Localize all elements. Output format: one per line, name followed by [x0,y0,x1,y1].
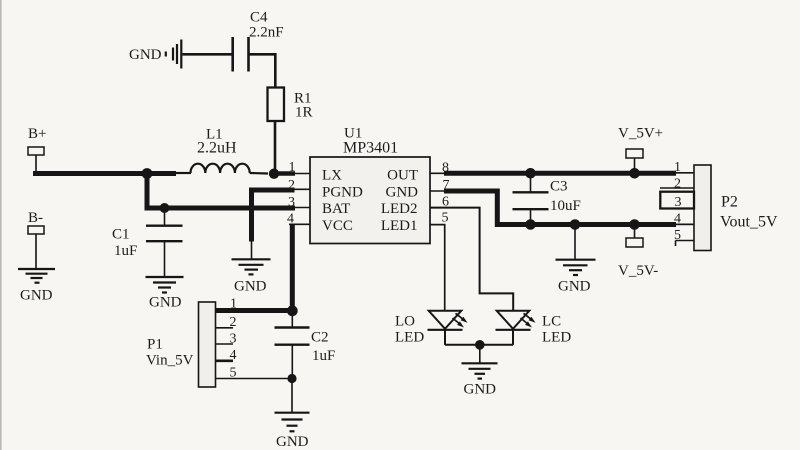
junction VCC/P1 [287,305,298,316]
junction L1/R1/LX [269,169,279,179]
wire GND pin7 to rail [444,191,532,225]
ground rail [556,260,596,275]
P1 pin3 stub [216,343,234,345]
P2 pin2 stub [660,187,694,189]
svg-text:B-: B- [28,210,43,226]
ground top-left (sideways) [166,40,182,69]
connector P2 box [694,165,711,251]
capacitor C4 [233,37,249,72]
capacitor C2 [275,311,310,379]
svg-text:4: 4 [287,212,294,227]
wire PGND [252,190,295,242]
svg-text:3: 3 [288,195,295,210]
svg-text:1R: 1R [295,105,313,121]
svg-text:LED: LED [395,330,424,346]
svg-text:5: 5 [674,228,681,243]
wire bottom rail [530,222,676,227]
ground PGND [232,259,271,274]
wire rail to ground [574,225,576,260]
junction C2/P1pin5 [287,374,296,383]
svg-text:GND: GND [276,434,309,450]
svg-text:2.2nF: 2.2nF [249,25,284,41]
svg-text:V_5V+: V_5V+ [618,126,663,142]
junction LED gnd [475,340,485,350]
svg-text:1: 1 [230,297,237,312]
ground LED [462,363,498,378]
junction C1 [160,203,170,213]
svg-text:1uF: 1uF [114,243,137,259]
junction rail gnd [570,219,581,230]
LED LC [496,311,531,345]
svg-text:3: 3 [230,332,237,347]
node B+ terminal [28,147,44,173]
svg-text:5: 5 [230,366,237,381]
svg-text:1: 1 [674,160,681,175]
pin 7 stub GND [430,190,447,192]
pin 5 wire LED1 [430,225,445,310]
LED LO [428,311,463,345]
svg-text:GND: GND [234,279,267,295]
P2 pin5 stub [676,241,695,247]
wire C2 to ground [291,379,293,413]
svg-text:LED1: LED1 [381,218,418,234]
svg-text:8: 8 [442,161,449,176]
svg-text:2.2uH: 2.2uH [197,140,237,157]
pin 8 stub OUT [430,172,448,174]
svg-text:BAT: BAT [322,201,350,217]
svg-text:4: 4 [674,212,681,227]
ground C1 [146,277,184,293]
junction C3 bottom [525,219,536,230]
svg-text:LX: LX [322,168,342,184]
svg-text:PGND: PGND [322,185,363,201]
junction V_5V+ [629,168,640,179]
svg-text:GND: GND [20,288,53,304]
svg-text:B+: B+ [28,126,46,142]
svg-text:GND: GND [558,279,591,295]
ground C2 [275,413,310,432]
LED LO arrows [453,313,468,327]
P1 pin2 stub [216,327,234,329]
scan edge [0,0,2,450]
svg-text:5: 5 [442,211,449,226]
wire GND to C4 [183,53,232,56]
svg-text:1uF: 1uF [312,348,335,364]
pin 4 stub VCC [289,223,310,225]
svg-text:LC: LC [542,314,561,330]
svg-text:VCC: VCC [322,218,353,234]
svg-text:7: 7 [443,178,450,193]
P1 pin4 stub [216,359,234,362]
wire C4 to R1 [250,54,276,87]
junction V_5V- [629,219,640,230]
svg-text:GND: GND [149,295,182,311]
svg-text:LED: LED [542,330,571,346]
svg-text:GND: GND [386,185,419,201]
svg-text:2: 2 [288,178,295,193]
inductor L1 [176,164,268,174]
svg-text:C2: C2 [311,330,329,346]
svg-text:LO: LO [395,314,415,330]
capacitor C3 [513,173,549,224]
svg-text:GND: GND [464,382,497,398]
LED LC arrows [521,313,536,327]
P2 pin3 loop [660,192,694,209]
junction B+/L1 [142,168,153,179]
pin 6 wire LED2 [430,208,513,310]
node B- terminal [28,226,44,269]
svg-text:MP3401: MP3401 [343,140,398,157]
wire OUT rail [444,171,676,176]
svg-text:P2: P2 [721,194,738,211]
svg-text:LED2: LED2 [381,201,418,217]
svg-text:2: 2 [674,177,681,192]
svg-text:C4: C4 [250,10,268,26]
svg-text:GND: GND [129,47,162,63]
wire R1 to LX [274,121,277,172]
P2 pin4 stub [675,223,694,225]
pin 3 stub BAT [290,207,310,209]
svg-text:Vout_5V: Vout_5V [720,214,778,231]
svg-text:4: 4 [230,348,237,363]
pin 2 stub [288,188,310,190]
svg-text:V_5V-: V_5V- [618,263,658,279]
svg-text:OUT: OUT [387,168,418,184]
svg-text:Vin_5V: Vin_5V [146,353,194,369]
svg-text:1: 1 [289,160,296,175]
wire VCC down [290,224,295,311]
svg-text:C1: C1 [112,227,130,243]
P1 pin5 wire [216,378,293,380]
node V_5V+ terminal [626,149,643,173]
svg-text:P1: P1 [147,337,163,353]
op-amp U1 box [310,157,430,244]
capacitor C1 [146,208,183,277]
wire LED bottoms [445,344,513,346]
svg-text:10uF: 10uF [550,198,581,214]
svg-text:2: 2 [230,315,237,330]
node V_5V- terminal [626,225,643,248]
wire LX pin1 [274,171,295,176]
junction C3 top [525,168,536,179]
wire LED to ground [479,345,481,363]
svg-text:C3: C3 [550,179,568,195]
resistor R1 [268,88,285,122]
wire P1 pin1 [216,308,293,313]
svg-text:6: 6 [442,195,449,210]
svg-text:3: 3 [675,195,682,210]
wire B+ to BAT [147,174,295,209]
ground B- [18,269,55,283]
connector P1 box [199,302,216,387]
wire B+ rail [33,171,176,176]
